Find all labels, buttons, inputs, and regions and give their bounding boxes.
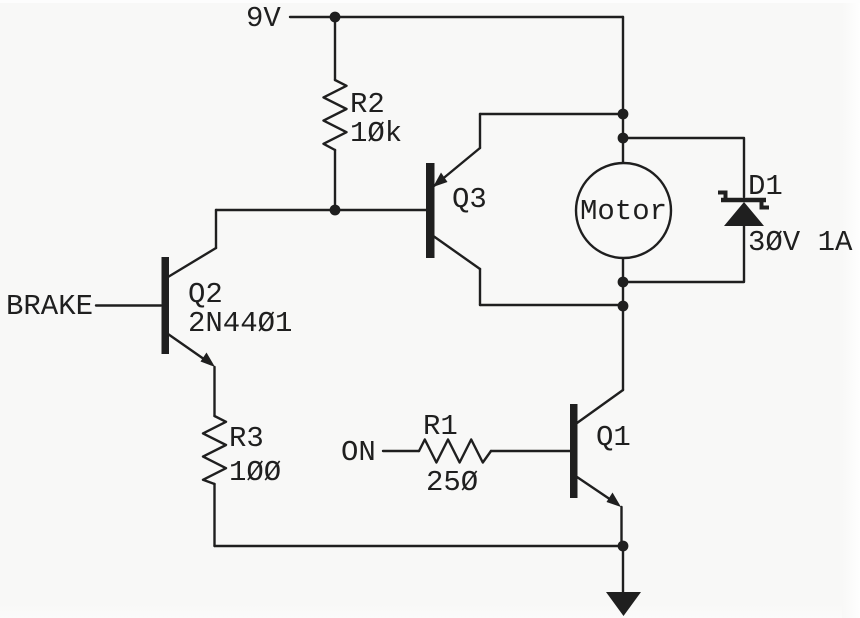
transistor Q1 emitter arrowhead (607, 493, 622, 508)
wire Q1 collector diagonal (577, 390, 623, 423)
transistor Q2 emitter arrowhead (201, 353, 216, 368)
wire Q2 emitter vertical (213, 367, 215, 416)
svg-text:2N44Ø1: 2N44Ø1 (188, 307, 292, 340)
motor M1 circle (576, 163, 671, 258)
wire ON lead (383, 450, 419, 452)
svg-text:ON: ON (341, 436, 376, 469)
svg-text:R3: R3 (229, 422, 264, 455)
wire base rail Q2 collector to Q3 base (216, 209, 426, 211)
transistor Q2 bar (162, 257, 170, 354)
diode D1 triangle (zener, anode up) (724, 202, 764, 226)
svg-text:1Øk: 1Øk (350, 117, 402, 150)
svg-text:BRAKE: BRAKE (6, 290, 93, 323)
wire motor bottom to Q1 collector (622, 258, 624, 390)
svg-text:Q3: Q3 (452, 183, 487, 216)
wire Q1 emitter diagonal (577, 477, 617, 504)
wire diode bottom branch (623, 226, 744, 282)
right edge fade (842, 0, 860, 618)
resistor R1 (419, 440, 491, 463)
transistor Q1 bar (570, 404, 578, 498)
wire bottom rail (215, 545, 624, 547)
resistor R3 (203, 416, 226, 484)
junction dot motor bottom / Q3 collector (618, 301, 629, 312)
wire R3 bottom lead (213, 484, 215, 546)
wire R2 bottom lead (334, 150, 336, 210)
wire 9V rail (290, 16, 623, 18)
wire R2 top lead (334, 17, 336, 80)
transistor Q3 bar (426, 163, 435, 258)
svg-text:25Ø: 25Ø (426, 466, 478, 499)
svg-text:9V: 9V (246, 2, 281, 35)
svg-text:Motor: Motor (580, 195, 667, 228)
svg-text:Q1: Q1 (596, 421, 631, 454)
wire Q3 emitter horizontal to motor top (480, 113, 623, 115)
wire diode top branch (623, 138, 744, 197)
junction dot motor top / Q3 emitter (618, 109, 629, 120)
junction dot diode top branch (618, 133, 629, 144)
wire Q3 collector horizontal to motor bottom (480, 304, 623, 306)
bottom edge fade (0, 604, 860, 618)
wire Q3 emitter diagonal (434, 148, 480, 186)
wire Q3 emitter vertical (479, 114, 481, 148)
junction dot at R2 top (330, 12, 341, 23)
wire Q1 emitter vertical (620, 507, 622, 546)
svg-text:1ØØ: 1ØØ (229, 456, 281, 489)
ground symbol (606, 592, 641, 616)
wire Q2 collector vertical (215, 210, 217, 248)
wire Q3 collector diagonal (434, 237, 480, 270)
wire Q3 collector vertical (479, 269, 481, 305)
wire Q2 collector diagonal (168, 248, 216, 277)
resistor R2 (324, 80, 347, 150)
transistor Q3 emitter arrowhead (PNP, pointing at bar) (433, 173, 448, 188)
wire Q2 emitter diagonal (168, 334, 211, 364)
diode D1 zener cathode bar (718, 193, 769, 208)
junction dot diode bottom branch (618, 277, 629, 288)
wire right rail top (9V corner down to motor) (622, 17, 624, 163)
wire ground lead (622, 546, 624, 592)
junction dot ground node (618, 541, 629, 552)
svg-text:R1: R1 (423, 410, 458, 443)
wire BRAKE lead (96, 304, 161, 306)
junction dot at base rail / R2 bottom (330, 205, 341, 216)
top edge fade (0, 0, 860, 3)
svg-text:D1: D1 (748, 170, 783, 203)
wire R1 to Q1 base (491, 450, 570, 452)
svg-text:3ØV 1A: 3ØV 1A (748, 226, 853, 259)
